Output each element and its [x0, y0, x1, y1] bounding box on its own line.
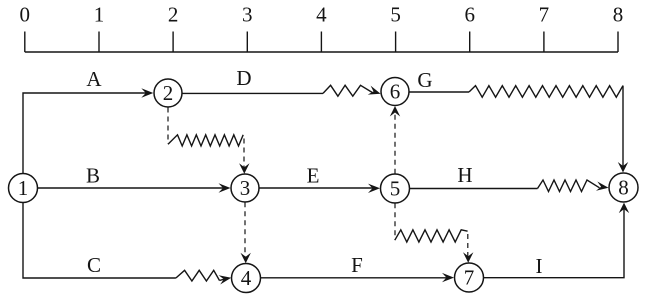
float zigzag on H — [538, 180, 600, 192]
svg-text:A: A — [86, 67, 102, 91]
svg-text:I: I — [536, 254, 543, 278]
svg-text:4: 4 — [316, 3, 327, 27]
node 2 — [154, 79, 182, 107]
activity G wire — [409, 91, 469, 93]
node 6 — [381, 78, 409, 106]
dummy 5-7 dashed drop — [394, 203, 396, 240]
svg-text:8: 8 — [613, 3, 624, 27]
svg-text:1: 1 — [18, 176, 29, 200]
node 7 — [455, 263, 484, 292]
svg-text:C: C — [87, 253, 101, 277]
svg-text:3: 3 — [242, 3, 253, 27]
svg-text:5: 5 — [390, 176, 401, 200]
node 5 — [381, 174, 410, 203]
arrowhead activity C into node 4 — [219, 275, 232, 284]
svg-text:7: 7 — [539, 3, 550, 27]
activity E arrow node3 to node5 — [259, 187, 376, 189]
arrowhead G into node 8 top — [618, 162, 628, 173]
svg-text:4: 4 — [241, 266, 252, 290]
svg-text:H: H — [457, 163, 472, 187]
svg-text:F: F — [351, 253, 363, 277]
ruler numbers — [20, 3, 624, 27]
svg-text:7: 7 — [464, 265, 475, 289]
ruler scale 0-8 — [25, 32, 618, 53]
activity I wire — [484, 208, 625, 278]
activity D wire — [182, 92, 323, 94]
svg-text:1: 1 — [94, 3, 105, 27]
activity H wire — [410, 188, 538, 190]
dummy 2-3 float zigzag — [168, 135, 243, 146]
node 8 — [609, 173, 638, 202]
wire from node 1 up to row A — [23, 93, 148, 175]
svg-text:3: 3 — [240, 176, 251, 200]
wire G down right side into node 8 — [622, 86, 624, 168]
dummy 5-7 dashed into node 7 — [467, 234, 469, 258]
svg-text:5: 5 — [390, 3, 401, 27]
svg-text:8: 8 — [618, 175, 629, 199]
arrowhead I into node 8 bottom — [619, 203, 629, 214]
arrowhead activity D into node 6 — [368, 86, 381, 95]
float zigzag on D — [323, 85, 373, 96]
node 4 — [232, 264, 261, 293]
activity F arrow node4 to node7 — [261, 277, 450, 279]
svg-text:6: 6 — [390, 79, 401, 103]
float zigzag on G — [469, 86, 623, 98]
svg-text:D: D — [236, 66, 251, 90]
svg-text:6: 6 — [464, 3, 475, 27]
dummy 2-3 dashed drop — [167, 108, 169, 145]
svg-text:G: G — [417, 68, 432, 92]
svg-text:2: 2 — [168, 3, 179, 27]
svg-text:0: 0 — [20, 3, 31, 27]
wire node1 down to row C — [23, 203, 176, 279]
arrowhead activity A into node 2 — [141, 88, 153, 97]
svg-text:B: B — [86, 164, 100, 188]
dummy 2-3 dashed into node 3 — [243, 139, 245, 169]
node 3 — [231, 174, 259, 202]
dummy 5-6 dashed arrow up — [394, 111, 396, 174]
activity B arrow node1 to node3 — [38, 187, 227, 189]
float zigzag on C — [176, 270, 220, 281]
svg-text:2: 2 — [163, 81, 174, 105]
arrowhead H into node 8 — [596, 182, 609, 191]
dummy 5-7 float zigzag — [395, 230, 468, 242]
svg-text:E: E — [307, 164, 320, 188]
node 1 — [9, 174, 38, 203]
dummy 3-4 dashed arrow — [244, 202, 246, 258]
